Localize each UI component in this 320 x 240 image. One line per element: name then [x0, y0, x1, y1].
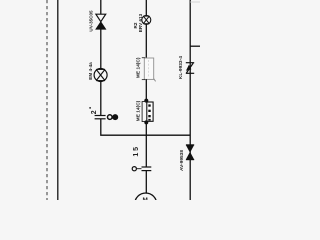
svg-text:2: 2 — [91, 110, 98, 114]
motor M — [135, 193, 157, 215]
dashed boundary line — [46, 0, 48, 200]
wire — [145, 122, 147, 167]
TVS diode AV-99538 — [186, 144, 194, 146]
svg-text:15: 15 — [133, 145, 140, 156]
svg-text:ME 14(C): ME 14(C) — [135, 100, 141, 121]
capacitor C2 — [142, 166, 152, 168]
diode D1 hollow half — [96, 14, 106, 22]
svg-text:AV-99538: AV-99538 — [179, 150, 185, 171]
svg-text:R2: R2 — [133, 22, 138, 28]
bottom bus wire y135 — [101, 119, 190, 135]
lamp ERV 613 — [142, 15, 151, 24]
junction node bottom — [144, 120, 148, 124]
connector block box — [147, 102, 153, 121]
svg-text:M: M — [143, 197, 148, 200]
lamp EM 4-4a — [94, 69, 107, 82]
svg-text:KL-9933-4: KL-9933-4 — [178, 56, 184, 79]
zener KL-9933 — [186, 62, 194, 64]
wire — [145, 24, 147, 58]
svg-text:EM 4-4a: EM 4-4a — [88, 62, 93, 80]
terminal 15 circle — [132, 167, 136, 171]
wire branch B top — [145, 0, 147, 16]
wire — [145, 79, 147, 102]
wire — [100, 82, 102, 116]
svg-text:ME 14(C): ME 14(C) — [135, 57, 141, 78]
solid boundary line — [57, 0, 59, 200]
diode D1 filled half — [96, 22, 106, 30]
box ME-14 coil — [144, 58, 153, 79]
connector circles — [108, 115, 113, 120]
faint stub top right — [190, 1, 200, 3]
junction node top — [144, 99, 148, 103]
svg-text:ERV 613: ERV 613 — [138, 13, 143, 32]
wire — [145, 171, 147, 194]
connector block bracket — [142, 102, 146, 122]
wire branch A top — [100, 0, 102, 15]
svg-text:UV-35C05: UV-35C05 — [88, 10, 93, 32]
terminal 15 stub — [137, 168, 142, 170]
capacitor C1 — [95, 115, 106, 117]
right supply rail — [189, 0, 191, 200]
wire — [100, 29, 102, 69]
stub terminal right y46 — [190, 45, 200, 47]
